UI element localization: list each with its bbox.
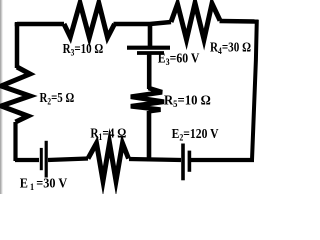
resistor R5 (131, 88, 164, 111)
battery E2 short plate (188, 151, 192, 172)
wire: middle branch between E3 and R5 (147, 54, 152, 89)
wire: middle branch top (148, 22, 153, 46)
svg-text:E 1 =30 V: E 1 =30 V (20, 176, 67, 193)
wire: top rail right segment (220, 19, 259, 24)
battery E1 short plate (40, 148, 43, 170)
battery E1 long plate (45, 141, 48, 178)
svg-text:E3=60 V: E3=60 V (158, 52, 200, 69)
svg-text:R5=10 Ω: R5=10 Ω (164, 94, 211, 111)
wire: bottom rail right segment (191, 158, 254, 162)
wire: left vertical lower segment (13, 122, 17, 161)
svg-text:R4=30 Ω: R4=30 Ω (210, 41, 251, 58)
wire: top rail left segment (17, 22, 64, 24)
battery E3 short plate (137, 51, 164, 55)
svg-text:R3=10 Ω: R3=10 Ω (63, 42, 104, 59)
wire: top rail middle segment (114, 22, 172, 24)
wire: bottom rail between E1 and R1 (48, 159, 88, 161)
wire: left vertical upper segment (15, 23, 20, 68)
svg-text:E2=120 V: E2=120 V (172, 127, 219, 144)
wire: right vertical (252, 20, 257, 160)
resistor R1 (88, 143, 129, 181)
battery E3 long plate (127, 46, 170, 50)
resistor R3 (64, 3, 115, 38)
battery E2 long plate (181, 144, 185, 181)
wire: bottom rail between R1 and E2 (129, 159, 181, 160)
resistor R2 (1, 67, 30, 122)
svg-text:R2=5 Ω: R2=5 Ω (40, 91, 75, 108)
wire: middle branch bottom (147, 111, 152, 160)
wire: bottom rail left segment (15, 158, 39, 162)
svg-text:R1=4 Ω: R1=4 Ω (90, 127, 126, 144)
resistor R4 (171, 3, 220, 40)
